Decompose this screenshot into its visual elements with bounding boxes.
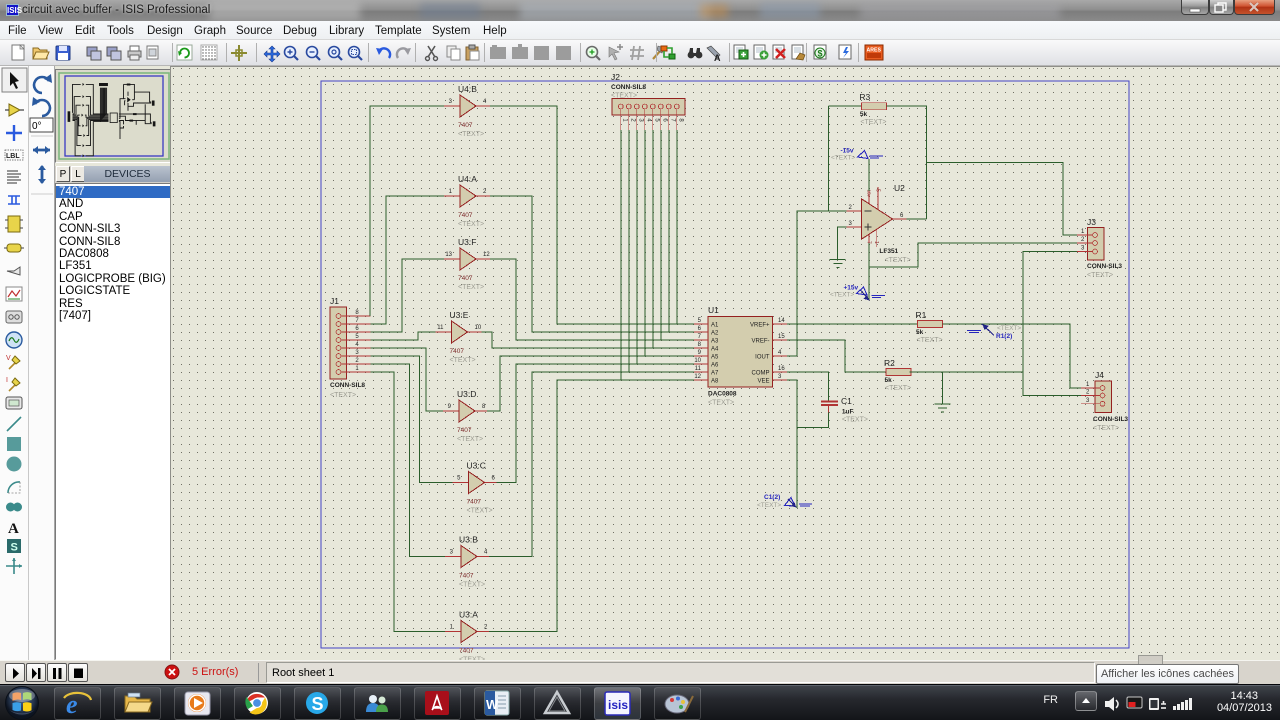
svg-text:J2: J2 bbox=[611, 72, 620, 82]
svg-text:A3: A3 bbox=[711, 339, 719, 345]
wire +15v node to J3.2 bbox=[869, 243, 1077, 267]
svg-text:COMP: COMP bbox=[752, 371, 770, 377]
svg-text:-15v: -15v bbox=[841, 148, 854, 155]
svg-text:12: 12 bbox=[694, 374, 701, 380]
wire J1.3 to U3:C input bbox=[371, 356, 453, 483]
svg-text:CONN-SIL3: CONN-SIL3 bbox=[1087, 263, 1122, 270]
sheet border bbox=[321, 81, 1129, 648]
buffer U3:E 7407 bbox=[436, 310, 482, 364]
svg-text:J3: J3 bbox=[1087, 217, 1096, 227]
svg-text:A: A bbox=[8, 521, 19, 537]
svg-text:<TEXT>: <TEXT> bbox=[1093, 425, 1119, 432]
wire U2 pin3 to ground bbox=[838, 227, 847, 259]
wire U2 V+ pin to -15v terminal bbox=[868, 159, 870, 191]
svg-text:5k: 5k bbox=[916, 329, 924, 336]
buffer U3:B 7407 bbox=[445, 535, 491, 589]
wire U2 output to feedback node bbox=[907, 218, 927, 220]
svg-text:CONN-SIL3: CONN-SIL3 bbox=[1093, 416, 1128, 423]
wire C1 bottom to VEE line bbox=[797, 413, 829, 428]
svg-text:CONN-SIL8: CONN-SIL8 bbox=[611, 84, 646, 91]
svg-text:<TEXT>: <TEXT> bbox=[842, 417, 868, 424]
svg-text:<TEXT>: <TEXT> bbox=[458, 131, 484, 138]
svg-text:1: 1 bbox=[873, 241, 879, 244]
svg-text:A6: A6 bbox=[711, 363, 719, 369]
wire U3:D out to U1.A5 bbox=[487, 356, 694, 411]
svg-text:<TEXT>: <TEXT> bbox=[885, 257, 911, 264]
svg-text:A7: A7 bbox=[711, 371, 719, 377]
wire J1.6 to U3:F input bbox=[371, 259, 444, 332]
svg-text:7407: 7407 bbox=[458, 275, 473, 282]
wire J2.6 to U1.A3 row bbox=[660, 130, 662, 340]
svg-text:7407: 7407 bbox=[457, 427, 472, 434]
menu bar bbox=[0, 21, 1280, 40]
wire J3.3 to J4.2 bbox=[1023, 252, 1081, 396]
connector J3 CONN-SIL3 bbox=[1077, 217, 1122, 279]
op-amp U2 LF351 bbox=[847, 183, 911, 264]
svg-text:15: 15 bbox=[778, 334, 785, 340]
svg-text:7407: 7407 bbox=[458, 122, 473, 129]
connector J1 CONN-SIL8 bbox=[330, 296, 371, 399]
svg-text:<TEXT>: <TEXT> bbox=[997, 325, 1021, 332]
wire U1.VEE down to probe C1(2) bbox=[787, 380, 797, 508]
schematic editor area bbox=[170, 66, 1280, 660]
svg-text:C1(2): C1(2) bbox=[764, 494, 780, 501]
svg-text:11: 11 bbox=[695, 366, 702, 372]
connector J2 CONN-SIL8 bbox=[611, 72, 685, 130]
wire R3 right down to U2 output bbox=[886, 106, 926, 219]
power terminal +15v bbox=[830, 285, 885, 301]
wire J1.7 to U4:A input bbox=[371, 196, 444, 324]
svg-text:LBL: LBL bbox=[6, 153, 20, 160]
svg-text:<TEXT>: <TEXT> bbox=[830, 292, 854, 299]
wire U3:E out to U1.A4 bbox=[482, 332, 695, 348]
wire U1.VREF+ to R1 left bbox=[787, 323, 918, 325]
resistor R3 5k feedback bbox=[859, 92, 886, 126]
power terminal -15v bbox=[831, 148, 883, 162]
svg-text:J4: J4 bbox=[1095, 370, 1104, 380]
svg-text:A: A bbox=[714, 53, 721, 63]
resistor R2 5k bbox=[884, 358, 911, 392]
svg-text:<TEXT>: <TEXT> bbox=[1087, 272, 1113, 279]
main toolbar bbox=[0, 40, 1280, 66]
ground symbol near U2 bbox=[830, 260, 846, 268]
devices list bbox=[55, 183, 171, 660]
buffer U4:A 7407 bbox=[444, 174, 490, 228]
wire IOUT up to U2 pin2 bbox=[797, 211, 847, 356]
wire U4:B out to U1.A1 bbox=[490, 106, 694, 324]
svg-text:+15v: +15v bbox=[844, 285, 859, 292]
tooltip bbox=[1096, 664, 1239, 684]
svg-text:U3:C: U3:C bbox=[467, 461, 486, 471]
svg-text:<TEXT>: <TEXT> bbox=[757, 502, 781, 509]
wire U3:B out to U1.A7 bbox=[489, 372, 694, 557]
svg-text:<TEXT>: <TEXT> bbox=[860, 119, 886, 126]
svg-text:U3:F: U3:F bbox=[458, 237, 476, 247]
svg-text:16: 16 bbox=[778, 366, 785, 372]
svg-text:C1: C1 bbox=[841, 396, 852, 406]
wire J2.1 to U1.A8 row bbox=[620, 130, 622, 380]
bottom status bar bbox=[0, 660, 1280, 684]
buffer U3:F 7407 bbox=[444, 237, 490, 291]
wire U3:C out to U1.A6 bbox=[497, 364, 695, 483]
svg-text:U2: U2 bbox=[894, 183, 905, 193]
windows taskbar bbox=[0, 684, 1280, 720]
connector J4 CONN-SIL3 bbox=[1081, 370, 1128, 432]
svg-text:R2: R2 bbox=[884, 358, 895, 368]
svg-text:S: S bbox=[11, 542, 18, 554]
svg-text:CONN-SIL8: CONN-SIL8 bbox=[330, 382, 365, 389]
svg-text:14: 14 bbox=[778, 318, 785, 324]
wire U1.COMP to C1 top bbox=[787, 372, 829, 401]
svg-text:A2: A2 bbox=[711, 331, 719, 337]
svg-text:<TEXT>: <TEXT> bbox=[330, 392, 356, 399]
overview window bbox=[55, 69, 171, 163]
rotate/mirror column bbox=[29, 66, 55, 660]
svg-text:11: 11 bbox=[437, 325, 444, 331]
svg-text:7: 7 bbox=[866, 241, 872, 244]
svg-text:S: S bbox=[312, 694, 324, 714]
svg-text:A4: A4 bbox=[711, 347, 719, 353]
IC U1 DAC0808 bbox=[694, 305, 787, 407]
svg-text:LF351: LF351 bbox=[879, 248, 898, 255]
svg-text:isis: isis bbox=[608, 698, 628, 712]
wire R3 left segment bbox=[829, 105, 862, 107]
buffer U3:D 7407 bbox=[443, 389, 489, 443]
svg-text:R3: R3 bbox=[859, 92, 870, 102]
wire J2.4 to U1.A5 row bbox=[644, 130, 646, 356]
svg-text:13: 13 bbox=[445, 252, 452, 258]
wire U3:A out to U1.A8 bbox=[489, 380, 694, 632]
svg-text:A8: A8 bbox=[711, 379, 719, 385]
wire R1 right to J4.1 bbox=[943, 324, 1082, 388]
svg-text:5: 5 bbox=[875, 189, 881, 192]
wire R3 left to U2 pin2 node bbox=[828, 106, 830, 211]
svg-text:<TEXT>: <TEXT> bbox=[458, 284, 484, 291]
svg-text:12: 12 bbox=[483, 252, 490, 258]
wire J1.2 to U3:B input bbox=[371, 364, 445, 557]
svg-text:U1: U1 bbox=[708, 305, 719, 315]
svg-text:V: V bbox=[6, 355, 11, 362]
svg-text:7407: 7407 bbox=[450, 348, 465, 355]
svg-text:U3:B: U3:B bbox=[459, 535, 478, 545]
svg-text:<TEXT>: <TEXT> bbox=[458, 221, 484, 228]
svg-text:10: 10 bbox=[694, 358, 701, 364]
wire U1.IOUT stub bbox=[787, 355, 797, 357]
svg-text:10: 10 bbox=[475, 325, 482, 331]
caption buttons bbox=[1181, 0, 1209, 15]
svg-text:A1: A1 bbox=[711, 323, 719, 329]
svg-text:VREF-: VREF- bbox=[752, 339, 770, 345]
voltage probe C1(2) bbox=[757, 494, 812, 509]
svg-text:1uF: 1uF bbox=[842, 409, 854, 416]
wire U2 V- pin to +15v terminal bbox=[868, 243, 870, 300]
wire J1.1 to U3:A input bbox=[371, 372, 445, 632]
svg-text:VEE: VEE bbox=[757, 379, 769, 385]
svg-text:U4:A: U4:A bbox=[458, 174, 477, 184]
svg-text:VREF+: VREF+ bbox=[750, 323, 770, 329]
wire U2 output to J3.1 bbox=[927, 163, 1078, 236]
svg-text:U3:E: U3:E bbox=[450, 310, 469, 320]
buffer U3:C 7407 bbox=[453, 461, 499, 515]
svg-text:7407: 7407 bbox=[459, 573, 474, 580]
ground symbol near R2 bbox=[934, 404, 950, 412]
wire J2.3 to U1.A6 row bbox=[636, 130, 638, 364]
wire U1.VREF- to R2 left bbox=[787, 340, 886, 372]
svg-text:U3:D: U3:D bbox=[457, 389, 476, 399]
wire J1.5 to U3:E input bbox=[371, 332, 436, 340]
svg-text:7407: 7407 bbox=[459, 648, 474, 655]
capacitor C1 1uF bbox=[821, 396, 868, 424]
svg-text:<TEXT>: <TEXT> bbox=[885, 385, 911, 392]
svg-text:<TEXT>: <TEXT> bbox=[831, 155, 855, 162]
svg-text:0°: 0° bbox=[32, 121, 42, 132]
wire J1.4 to U3:D input bbox=[371, 348, 443, 411]
svg-text:ARES: ARES bbox=[867, 48, 882, 54]
resistor R1 5k bbox=[916, 310, 943, 344]
left tool column bbox=[0, 66, 29, 660]
wire J2.2 to U1.A7 row bbox=[628, 130, 630, 372]
svg-text:$: $ bbox=[818, 49, 823, 59]
buffer U3:A 7407 bbox=[445, 610, 491, 664]
svg-text:A5: A5 bbox=[711, 355, 719, 361]
window title bar bbox=[0, 0, 1280, 21]
svg-text:IOUT: IOUT bbox=[755, 355, 770, 361]
svg-text:7407: 7407 bbox=[467, 499, 482, 506]
svg-text:I: I bbox=[6, 377, 8, 384]
svg-text:U4:B: U4:B bbox=[458, 84, 477, 94]
wire J2.5 to U1.A4 row bbox=[652, 130, 654, 348]
svg-text:7407: 7407 bbox=[458, 212, 473, 219]
wire U4:A out to U1.A2 bbox=[490, 196, 694, 332]
svg-text:5k: 5k bbox=[885, 377, 893, 384]
svg-text:<TEXT>: <TEXT> bbox=[708, 400, 734, 407]
svg-text:R1(2): R1(2) bbox=[996, 333, 1012, 340]
svg-text:W: W bbox=[486, 697, 499, 712]
svg-text:<TEXT>: <TEXT> bbox=[457, 436, 483, 443]
svg-text:U3:A: U3:A bbox=[459, 610, 478, 620]
svg-text:J1: J1 bbox=[330, 296, 339, 306]
svg-text:<TEXT>: <TEXT> bbox=[459, 582, 485, 589]
svg-text:5k: 5k bbox=[860, 111, 868, 118]
wire U3:F out to U1.A3 bbox=[490, 259, 694, 340]
wire R2 right to J3.3/J4.2 node bbox=[910, 371, 1024, 373]
svg-text:<TEXT>: <TEXT> bbox=[467, 508, 493, 515]
svg-text:R1: R1 bbox=[916, 310, 927, 320]
voltage probe R1(2) bbox=[967, 324, 1021, 340]
svg-text:<TEXT>: <TEXT> bbox=[917, 337, 943, 344]
svg-text:DAC0808: DAC0808 bbox=[708, 391, 737, 398]
wire ground drop at R2 node bbox=[941, 372, 943, 404]
P/L buttons and DEVICES header bbox=[55, 166, 171, 183]
svg-text:<TEXT>: <TEXT> bbox=[450, 357, 476, 364]
buffer U4:B 7407 bbox=[444, 84, 490, 138]
wire J2.8 to U1.A1 row bbox=[676, 130, 678, 324]
wire J2.7 to U1.A2 row bbox=[668, 130, 670, 332]
wire J1.8 to U4:B input bbox=[370, 106, 444, 316]
